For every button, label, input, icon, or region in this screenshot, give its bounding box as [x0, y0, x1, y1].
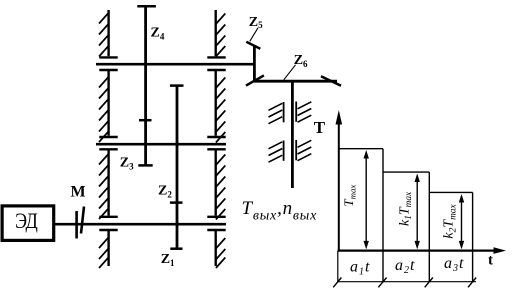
- measure arrow k1Tmax: [415, 174, 420, 250]
- svg-text:Z6: Z6: [294, 53, 308, 69]
- measure arrow k2Tmax: [459, 194, 464, 249]
- slash tick 1: [333, 278, 341, 288]
- svg-text:М: М: [70, 184, 85, 201]
- bearing caps right wall shaft 2: [207, 137, 225, 149]
- chart vertical axis T: [336, 110, 343, 252]
- svg-text:Z3: Z3: [120, 156, 134, 172]
- bevel gear z5: [246, 42, 260, 81]
- bearing caps left wall shaft 2: [99, 137, 117, 149]
- svg-text:T: T: [314, 118, 326, 137]
- svg-text:Tmax: Tmax: [341, 185, 358, 207]
- svg-text:Z4: Z4: [151, 26, 165, 42]
- svg-text:k2Tmax: k2Tmax: [442, 204, 459, 239]
- coupling M: [77, 207, 84, 239]
- svg-text:t: t: [488, 252, 493, 268]
- left wall: [107, 10, 109, 266]
- bearing output shaft lower right: [296, 140, 311, 161]
- bearing caps right wall shaft 3: [207, 217, 225, 230]
- cell bottom line: [337, 281, 476, 283]
- svg-text:a3t: a3t: [444, 255, 464, 274]
- svg-text:a2t: a2t: [395, 257, 415, 276]
- leader line z5: [250, 28, 258, 42]
- step 2 top: [383, 171, 429, 173]
- shaft 2 (intermediate): [96, 143, 226, 146]
- left wall hatching: [99, 13, 108, 268]
- step 3 top: [429, 191, 472, 193]
- bevel gear z6: [246, 75, 341, 85]
- bearing caps right wall shaft 1: [207, 57, 225, 70]
- right wall hatching: [216, 14, 225, 269]
- shaft 3 (input shaft): [55, 223, 226, 226]
- svg-text:Tвых,nвых: Tвых,nвых: [242, 198, 318, 224]
- right wall: [214, 10, 216, 266]
- slash tick 3: [425, 278, 433, 288]
- svg-text:Z2: Z2: [158, 184, 172, 200]
- slash tick 4: [468, 278, 476, 288]
- bearing caps left wall shaft 1: [99, 57, 117, 70]
- svg-text:k1Tmax: k1Tmax: [397, 191, 414, 226]
- step 1 top: [339, 148, 383, 150]
- left cell divider: [337, 251, 339, 282]
- svg-text:ЭД: ЭД: [15, 209, 38, 233]
- chart horizontal axis t: [338, 247, 506, 254]
- motor ЭД: [2, 206, 54, 241]
- leader line z6: [284, 65, 296, 80]
- measure arrow Tmax: [364, 150, 369, 249]
- gear z3: [138, 120, 152, 165]
- output vertical shaft: [291, 81, 294, 188]
- bearing output shaft lower left: [269, 141, 284, 163]
- svg-text:a1t: a1t: [350, 259, 370, 278]
- svg-text:Z5: Z5: [249, 15, 263, 30]
- gear z1: [170, 203, 183, 249]
- bearing output shaft upper right: [296, 102, 311, 123]
- bearing output shaft upper left: [269, 102, 284, 124]
- step 2 right edge / divider: [428, 172, 430, 282]
- slash tick 2: [378, 278, 386, 288]
- svg-text:Z1: Z1: [161, 252, 175, 268]
- step 3 right edge / divider: [472, 192, 474, 281]
- shaft 1 (top output of 2nd stage): [96, 63, 254, 66]
- gear z4: [137, 6, 156, 120]
- gear z2: [170, 86, 184, 203]
- step 1 right edge / divider: [382, 149, 384, 282]
- bearing caps left wall shaft 3: [99, 217, 117, 230]
